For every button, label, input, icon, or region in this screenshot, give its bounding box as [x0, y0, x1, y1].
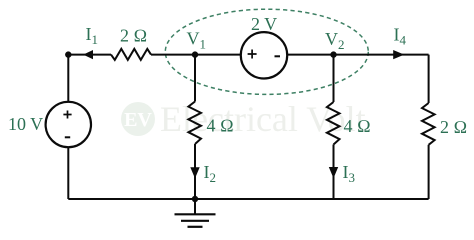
current arrow I1 — [83, 50, 93, 59]
svg-text:4 Ω: 4 Ω — [207, 116, 234, 136]
wire branch V1 lower — [194, 144, 196, 199]
resistor 4ohm left — [188, 102, 201, 145]
wire branch V1 upper — [194, 55, 196, 102]
wire left rail lower — [67, 147, 69, 199]
svg-text:EV: EV — [124, 109, 152, 131]
svg-text:I3: I3 — [343, 162, 356, 185]
resistor 4ohm right — [327, 102, 340, 145]
svg-text:I4: I4 — [394, 25, 407, 48]
supernode dashed ellipse — [165, 9, 368, 94]
watermark — [121, 99, 366, 139]
current arrow I2 — [190, 167, 199, 178]
current arrow I4 — [393, 50, 404, 59]
svg-text:2 Ω: 2 Ω — [120, 26, 147, 46]
svg-text:I2: I2 — [204, 162, 217, 185]
wire top-middle segment — [151, 54, 241, 56]
current arrow I3 — [329, 167, 338, 178]
svg-text:I1: I1 — [86, 24, 99, 47]
voltage source 10V — [46, 102, 91, 147]
resistor 2ohm right — [422, 103, 435, 145]
svg-text:2 Ω: 2 Ω — [440, 117, 467, 137]
svg-text:4 Ω: 4 Ω — [344, 116, 371, 136]
wire branch V2 lower — [333, 145, 335, 200]
junction dot ground — [192, 196, 198, 202]
svg-text:V1: V1 — [187, 29, 207, 52]
resistor 2ohm top — [111, 49, 151, 60]
wire top-left segment — [68, 54, 111, 56]
node V2 — [330, 51, 336, 57]
wire right rail lower — [428, 145, 430, 199]
wire left rail upper — [67, 55, 69, 102]
svg-text:2 V: 2 V — [251, 14, 277, 34]
svg-text:V2: V2 — [325, 29, 345, 52]
wire branch V2 upper — [333, 55, 335, 102]
wire right rail upper — [428, 55, 430, 103]
svg-text:10 V: 10 V — [8, 114, 43, 134]
wire top-right segment — [287, 54, 428, 56]
ground — [175, 199, 216, 227]
node V1 — [192, 51, 198, 57]
junction dot top-left — [65, 51, 71, 57]
wire bottom — [68, 198, 428, 200]
voltage source 2V — [241, 32, 287, 78]
